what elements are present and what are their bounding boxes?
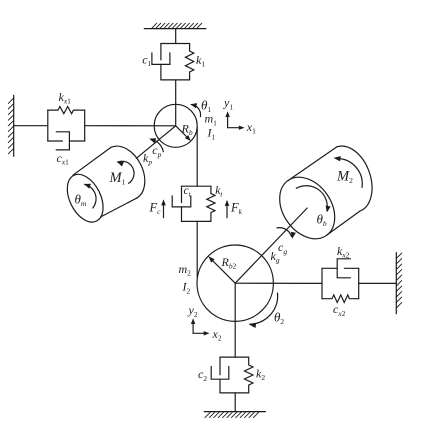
rotation arrow theta_m on motor M1 face (84, 184, 96, 208)
left wall (fixed support) (8, 95, 13, 156)
wire: c2-k2 assembly to ground (234, 393, 236, 412)
radius arrow Rb2 of pulley 2 (208, 256, 235, 283)
svg-text:ct: ct (184, 185, 192, 199)
wire: pulley 2 center to kx2-cx2 assembly (235, 282, 322, 284)
rotation arrow theta_b on motor M2 face (296, 186, 330, 213)
label theta2 (274, 310, 284, 327)
wire: rope ct-kt assembly down to pulley 2 (196, 221, 198, 277)
c1-k1 bottom rail (161, 79, 190, 81)
motor M1 cylinder (60, 146, 145, 228)
c2-k2 top rail (220, 356, 249, 358)
right wall (fixed support) (396, 253, 401, 314)
wire: rope pulley1 right tangent going down (196, 128, 198, 187)
label kx1 (59, 90, 72, 106)
ceiling ground (fixed support, top) (144, 23, 206, 28)
rotation arrow theta2 on pulley 2 (249, 293, 278, 328)
force arrow Fk (225, 200, 230, 218)
spring kx1 (48, 107, 85, 114)
label k1 (196, 53, 205, 69)
label y2 (188, 303, 198, 319)
kx2-cx2 left bracket (321, 268, 323, 298)
motor M2 cylinder (268, 146, 372, 249)
kx1-cx1 right bracket (84, 110, 86, 141)
svg-text:Rb: Rb (181, 121, 193, 137)
label cg (278, 240, 287, 256)
svg-text:x1: x1 (246, 120, 256, 136)
wire: left wall to kx1-cx1 assembly (14, 125, 48, 127)
label c2 (198, 367, 207, 383)
spring k1 (185, 44, 193, 80)
svg-text:Fc: Fc (149, 201, 162, 217)
label kp (143, 151, 152, 167)
label cx2 (333, 302, 346, 318)
pulley 1 (mass m1, inertia I1) (154, 104, 197, 147)
wire: ceiling to c1-k1 assembly (175, 29, 177, 44)
label k2 (256, 366, 265, 382)
svg-text:k1: k1 (196, 53, 205, 69)
label kx2 (337, 244, 350, 260)
wire: kx2-cx2 assembly to right wall (359, 282, 397, 284)
svg-text:y2: y2 (188, 303, 198, 319)
label Fk (230, 201, 243, 217)
twist arrow on shaft 2 (277, 228, 296, 239)
label theta1 (201, 97, 211, 114)
label Rb2 (221, 255, 237, 271)
label cp (152, 143, 161, 159)
label kg (271, 249, 280, 265)
damper c1 (152, 44, 170, 80)
svg-text:c1: c1 (142, 53, 151, 69)
spring k2 (244, 357, 253, 393)
rotation arrow theta1 on pulley 1 (190, 103, 200, 117)
label x2 (212, 327, 222, 343)
svg-text:θm: θm (75, 191, 87, 208)
label M2 (336, 168, 353, 185)
kx1-cx1 left bracket (47, 110, 49, 141)
shaft from motor M1 to pulley 1 (kp, cp) (136, 126, 175, 159)
label m2 (179, 262, 192, 278)
force arrow Fc (161, 199, 166, 217)
label theta_b (317, 211, 327, 228)
coordinate axes x2 y2 (191, 318, 210, 335)
rotation arrow on motor M2 body (334, 156, 363, 187)
svg-text:k2: k2 (256, 366, 265, 382)
damper cx1 (48, 132, 85, 150)
label I1 (207, 126, 216, 142)
coordinate axes x1 y1 (225, 111, 244, 130)
damper c2 (211, 357, 229, 393)
damper ct (172, 186, 191, 221)
svg-text:x2: x2 (212, 327, 222, 343)
svg-text:Fk: Fk (230, 201, 243, 217)
pulley 2 (mass m2, inertia I2) (197, 245, 273, 321)
label theta_m (75, 191, 87, 208)
rotation arrow on motor M1 body (117, 161, 134, 183)
damper kx2 (top branch) (322, 259, 359, 278)
c2-k2 bottom rail (220, 392, 249, 394)
svg-text:M2: M2 (336, 168, 353, 185)
label kt (215, 185, 223, 199)
svg-text:y1: y1 (223, 96, 233, 112)
label M1 (109, 170, 126, 187)
radius arrow Rb of pulley 1 (176, 126, 191, 141)
wire: c1-k1 assembly to pulley 1 center (175, 80, 177, 126)
label c1 (142, 53, 151, 69)
svg-text:kx1: kx1 (59, 90, 72, 106)
svg-text:kp: kp (143, 151, 152, 167)
svg-text:I1: I1 (207, 126, 216, 142)
wire: pulley 2 center down to c2-k2 assembly (234, 283, 236, 357)
label x1 (246, 120, 256, 136)
svg-text:θb: θb (317, 211, 327, 228)
svg-text:θ2: θ2 (274, 310, 284, 327)
svg-text:kx2: kx2 (337, 244, 350, 260)
svg-text:c2: c2 (198, 367, 207, 383)
svg-text:Rb2: Rb2 (221, 255, 237, 271)
label I2 (182, 280, 191, 296)
svg-text:cx1: cx1 (57, 151, 70, 167)
label cx1 (57, 151, 70, 167)
label m1 (205, 112, 218, 128)
shaft from pulley 2 to motor M2 (kg, cg) (235, 208, 307, 283)
kx2-cx2 right bracket (358, 268, 360, 298)
wire: kx1-cx1 assembly to pulley 1 center (85, 125, 176, 127)
svg-text:cx2: cx2 (333, 302, 346, 318)
ct-kt bottom rail (182, 220, 211, 222)
ct-kt top rail (182, 185, 211, 187)
twist arrow on shaft 1 (149, 138, 163, 151)
bottom ground (fixed support) (204, 412, 265, 418)
label Fc (149, 201, 162, 217)
spring cx2 (bottom branch) (322, 295, 359, 303)
label y1 (223, 96, 233, 112)
spring kt (207, 186, 215, 221)
svg-text:I2: I2 (182, 280, 191, 296)
svg-text:cg: cg (278, 240, 287, 256)
c1-k1 top rail (161, 43, 190, 45)
svg-text:M1: M1 (109, 170, 126, 187)
label Rb (181, 121, 193, 137)
svg-text:m2: m2 (179, 262, 192, 278)
svg-text:kt: kt (215, 185, 223, 199)
label ct (184, 185, 192, 199)
